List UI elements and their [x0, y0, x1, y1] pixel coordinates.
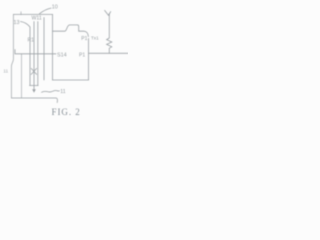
svg-text:11: 11: [3, 68, 8, 74]
svg-text:13: 13: [14, 20, 20, 26]
svg-text:P1: P1: [79, 53, 85, 59]
svg-text:Tx1: Tx1: [91, 36, 99, 41]
svg-text:R1: R1: [28, 38, 35, 44]
svg-text:FIG. 2: FIG. 2: [52, 107, 81, 117]
svg-text:10: 10: [52, 5, 58, 11]
svg-text:11: 11: [60, 89, 65, 95]
svg-text:S14: S14: [57, 52, 67, 58]
svg-text:P1: P1: [81, 36, 87, 42]
svg-text:W11: W11: [32, 16, 42, 22]
